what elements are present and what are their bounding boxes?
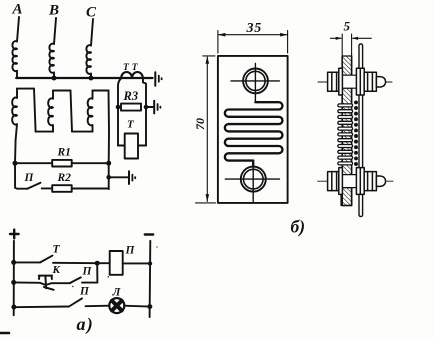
inductor coil phase B (49, 44, 54, 78)
plus terminal (10, 230, 19, 239)
wire P contact stub (15, 187, 27, 190)
wire branch3 left (14, 306, 69, 309)
wire branch1 right (53, 262, 110, 264)
svg-text:R2: R2 (57, 172, 72, 184)
wire W3 right leg down to R1 node (108, 91, 111, 164)
dimension 35 extension lines (218, 31, 288, 54)
dimension 70 line (206, 57, 208, 202)
junction dot bus-C (89, 76, 94, 81)
wire branch3 mid (86, 305, 110, 308)
hole bottom circle inner (244, 169, 264, 189)
mica strip (359, 44, 363, 217)
hole top circle outer (243, 69, 268, 94)
contact P3 blade (69, 298, 82, 306)
switch contact P blade (27, 183, 40, 189)
wire branch2 left (14, 282, 70, 284)
lamp L (109, 298, 124, 313)
current transformer TT humps (121, 72, 143, 78)
top circle crosshair (231, 64, 279, 103)
centerline bottom bolt (318, 180, 393, 182)
wire phase A lead (17, 17, 19, 42)
svg-text:Л: Л (112, 287, 122, 299)
wire W1 bottom link (36, 131, 53, 133)
hole top circle inner (246, 71, 265, 90)
wire R3 loop left vertical (118, 79, 121, 146)
svg-text:П: П (79, 286, 90, 298)
transformer secondary winding W2 (48, 91, 53, 132)
wire W2 right leg (71, 91, 73, 132)
wire R3 loop bottom (118, 145, 146, 147)
wire W2 bottom link (72, 131, 93, 133)
svg-text:Т: Т (53, 244, 61, 256)
ground 1 (right of TT) (155, 72, 161, 86)
junction dot R1 left (13, 161, 18, 166)
plate hatched regions (342, 56, 351, 75)
centerline top bolt (318, 81, 392, 83)
wire left rail (13, 241, 15, 315)
dimension 70 extension lines (196, 56, 216, 203)
junction dot R1 right (106, 161, 111, 166)
resistor R3 (121, 104, 141, 111)
bottom circle crosshair (225, 167, 279, 202)
relay coil P (110, 251, 123, 275)
wire W1 top (17, 88, 34, 90)
junction dot right rail (148, 261, 152, 265)
scan artifact bottom-left (0, 332, 9, 335)
plate outline (218, 56, 288, 203)
bolt shank band top (342, 75, 356, 88)
wire coil to right rail (123, 262, 150, 264)
wire left rail upper (14, 140, 17, 188)
left hex nut bottom (328, 172, 339, 191)
svg-text:5: 5 (344, 19, 351, 34)
plate section outline (342, 34, 351, 206)
inductor coil phase C (86, 45, 91, 78)
contact T blade (40, 256, 53, 263)
bolt shank band bottom (342, 175, 356, 188)
resistor R1 (52, 160, 71, 167)
minus terminal (145, 233, 153, 235)
scan speck near branch2 (72, 286, 74, 288)
ground 2 (right of R3) (154, 101, 160, 114)
wire branch3 right (124, 305, 150, 308)
wire W1 right leg (34, 89, 36, 132)
right washers bottom (356, 168, 364, 195)
bottom bolt assembly (328, 168, 386, 195)
right hex nut top (364, 72, 376, 91)
winding wire turns (338, 104, 353, 165)
junction dot ground branch (106, 175, 111, 180)
junction dot R3 right (144, 105, 149, 110)
contact tip bottom (376, 176, 385, 186)
transformer secondary winding W1 (12, 89, 17, 140)
svg-text:R3: R3 (123, 89, 139, 103)
inductor coil phase A (12, 41, 17, 78)
left hex nut top (328, 72, 339, 91)
svg-text:R1: R1 (57, 147, 71, 159)
junction dot R3 left (116, 105, 121, 110)
svg-text:В: В (48, 3, 59, 19)
wire branch1 left (14, 261, 40, 263)
winding wire cross-section dots (354, 100, 358, 165)
svg-text:П: П (82, 266, 93, 278)
wire phase B lead (54, 18, 56, 44)
wire ground 3 branch (109, 176, 128, 178)
junction dot branch1 left (11, 260, 16, 265)
thermal element T box (125, 134, 138, 159)
wire R2 line (42, 187, 109, 190)
svg-text:П: П (125, 245, 136, 257)
junction dot branch1 node (95, 261, 100, 266)
ground 3 (129, 171, 135, 184)
wire W3 top (93, 90, 109, 92)
top bolt assembly (328, 68, 386, 95)
wire W2 top (53, 90, 71, 92)
right washers top (356, 68, 364, 95)
transformer secondary winding W3 (88, 91, 93, 132)
wire R1 line (15, 162, 109, 164)
svg-text:б): б) (291, 217, 306, 237)
svg-text:С: С (86, 5, 97, 21)
heater serpentine (225, 102, 283, 167)
wire right vertical R1->R2 (108, 163, 110, 189)
svg-text:70: 70 (193, 118, 207, 130)
junction dot branch2 left (11, 280, 16, 285)
contact tip top (376, 77, 385, 87)
svg-text:35: 35 (246, 21, 263, 36)
svg-text:К: К (52, 264, 61, 276)
junction dot branch3 right (147, 304, 152, 309)
wire bus (16, 77, 152, 79)
right hex nut bottom (364, 172, 376, 191)
dimension 5 lines (330, 37, 371, 39)
junction dot bus-B (52, 76, 57, 81)
left washer bottom (339, 168, 343, 195)
svg-text:П: П (24, 172, 35, 184)
dimension 35 line (218, 34, 288, 36)
hole bottom circle outer (241, 167, 266, 192)
resistor R2 (52, 185, 71, 192)
wire phase C lead (91, 19, 93, 46)
wire branch2 to node (82, 263, 97, 282)
left washer top (339, 68, 343, 95)
svg-text:А: А (12, 2, 23, 18)
svg-text:а): а) (77, 314, 94, 335)
wire right rail (149, 241, 152, 317)
wire to ground 2 (146, 106, 153, 108)
contact P2 blade (70, 277, 81, 283)
thermal contact K striker (39, 276, 54, 290)
wire R3 loop right vertical (143, 79, 146, 146)
svg-text:Т: Т (127, 119, 135, 131)
junction dot branch3 left (11, 305, 16, 310)
